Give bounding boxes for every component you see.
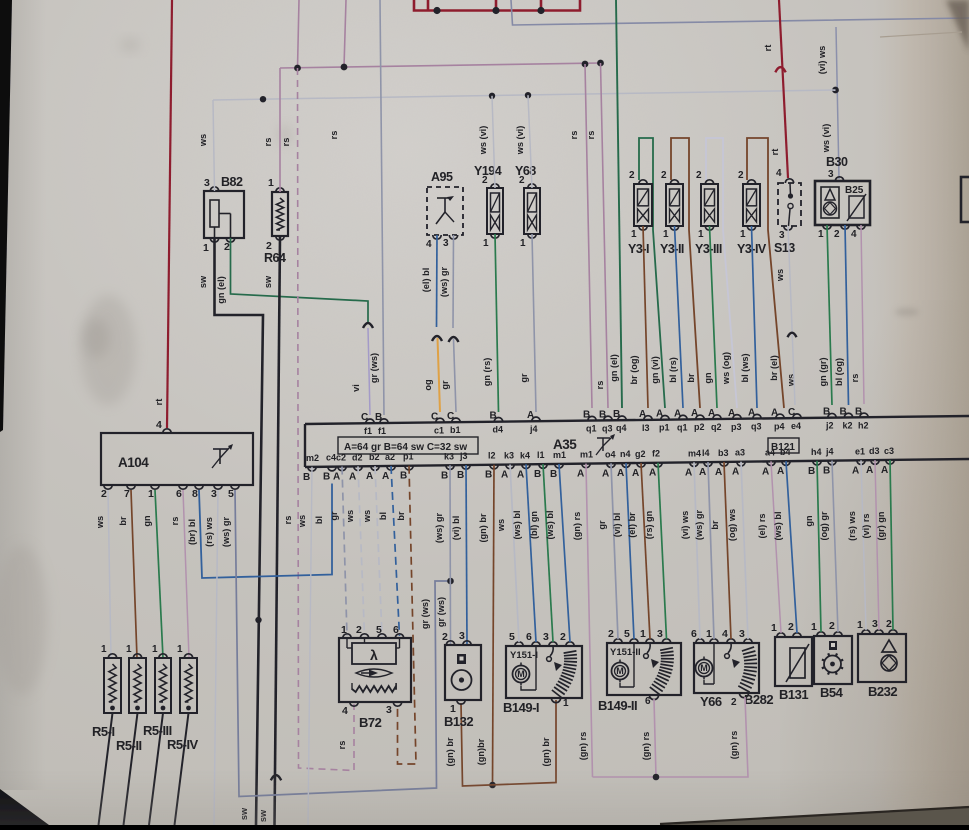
wire rt red vertical to A104 bbox=[167, 0, 172, 428]
svg-text:2: 2 bbox=[886, 618, 892, 630]
svg-text:(rs) ws: (rs) ws bbox=[204, 517, 214, 547]
svg-text:(el) rs: (el) rs bbox=[757, 513, 767, 538]
svg-text:sw: sw bbox=[198, 275, 208, 288]
svg-text:j2: j2 bbox=[825, 421, 834, 431]
svg-text:2: 2 bbox=[560, 631, 566, 643]
component B54 box bbox=[814, 636, 852, 684]
junction dot rs q1 bbox=[582, 61, 589, 68]
svg-text:3: 3 bbox=[828, 169, 834, 180]
component B232 box bbox=[858, 634, 906, 682]
svg-text:B25: B25 bbox=[845, 185, 864, 196]
svg-text:(ws) bl: (ws) bl bbox=[773, 511, 783, 540]
svg-text:2: 2 bbox=[356, 624, 362, 636]
svg-text:m1: m1 bbox=[553, 450, 566, 460]
svg-text:d3: d3 bbox=[869, 446, 880, 456]
svg-text:2: 2 bbox=[731, 697, 737, 708]
B54 pin bumps bbox=[817, 632, 825, 636]
svg-text:j4: j4 bbox=[825, 447, 834, 457]
component R5-III resistor bbox=[155, 658, 171, 713]
wire gn A104 pin1 to R5-III bbox=[155, 490, 163, 658]
Y66 bottom pin bump bbox=[739, 693, 748, 698]
A35 top terminal q2 bbox=[713, 415, 721, 419]
Y3-IV pin2 bump bbox=[747, 180, 755, 184]
svg-text:(ws) gr: (ws) gr bbox=[221, 517, 231, 548]
wire gr Y68 to bus j4 bbox=[532, 234, 536, 412]
B25 slashed rect bbox=[849, 196, 864, 218]
Y66 motor bbox=[696, 660, 713, 677]
A35 bottom terminal k3 bbox=[506, 465, 514, 469]
svg-text:R5-IV: R5-IV bbox=[167, 737, 199, 752]
wire gr bus to B72 bbox=[342, 467, 347, 636]
wire staple pin2 Y3-III bbox=[706, 138, 737, 408]
svg-text:e4: e4 bbox=[791, 421, 801, 431]
wire ws B82 pin3 up bbox=[213, 100, 215, 191]
svg-text:R5-II: R5-II bbox=[116, 738, 142, 753]
svg-text:br: br bbox=[396, 511, 406, 521]
component B131 box bbox=[775, 637, 812, 686]
svg-text:c3: c3 bbox=[884, 446, 894, 456]
svg-text:q2: q2 bbox=[711, 422, 722, 432]
svg-text:λ: λ bbox=[370, 647, 378, 663]
wire rs from top edge b bbox=[344, 0, 346, 67]
svg-text:1: 1 bbox=[857, 619, 863, 631]
wire (ws)gr A95 pin3 bbox=[452, 235, 455, 328]
svg-text:q3: q3 bbox=[602, 423, 613, 433]
svg-text:gr: gr bbox=[597, 520, 607, 530]
A35 bottom terminal d3 bbox=[871, 460, 879, 464]
svg-text:1: 1 bbox=[152, 644, 158, 655]
A35 bottom terminal a4 bbox=[767, 461, 775, 465]
svg-text:B149-II: B149-II bbox=[598, 698, 637, 713]
A35 internal symbol bbox=[597, 437, 610, 439]
wire staple pin2 Y3-I bbox=[639, 138, 665, 408]
A35 bottom terminal m1 bbox=[582, 464, 590, 468]
wire gn bus h4 to B54 bbox=[817, 461, 821, 632]
svg-text:(gn) br: (gn) br bbox=[478, 513, 488, 543]
wire (ws) bl bus to B149-I bbox=[559, 464, 570, 642]
svg-text:gn: gn bbox=[142, 515, 152, 527]
svg-text:B: B bbox=[375, 412, 382, 423]
svg-text:B: B bbox=[490, 411, 497, 422]
B54 gear bbox=[824, 656, 841, 673]
svg-text:f2: f2 bbox=[652, 449, 660, 459]
svg-text:f1: f1 bbox=[364, 426, 372, 436]
wire (gn)rs horizontal bbox=[593, 697, 749, 777]
svg-text:1: 1 bbox=[631, 229, 637, 240]
S13 switch internals bbox=[789, 183, 792, 195]
svg-text:rt: rt bbox=[154, 399, 164, 406]
svg-text:p1: p1 bbox=[659, 423, 670, 433]
component R5-IV resistor bbox=[180, 658, 197, 713]
A104 internal symbol bbox=[213, 448, 228, 450]
svg-text:Y66: Y66 bbox=[700, 694, 722, 709]
svg-text:(el) bl: (el) bl bbox=[421, 268, 431, 293]
svg-text:Y151-I: Y151-I bbox=[510, 650, 538, 661]
svg-text:c1: c1 bbox=[434, 425, 444, 435]
A35 bottom terminal a3 bbox=[737, 462, 745, 466]
svg-text:br: br bbox=[118, 516, 128, 526]
svg-text:og: og bbox=[423, 379, 433, 390]
wire gn(el) teal B82 pin2 to bus f1 bbox=[231, 238, 369, 322]
svg-text:A: A bbox=[674, 408, 681, 419]
svg-text:3: 3 bbox=[657, 628, 663, 640]
wire pin1 Y3-II to bus bbox=[675, 226, 684, 408]
A35 top terminal b1 bbox=[452, 418, 460, 422]
svg-text:1: 1 bbox=[148, 488, 154, 500]
svg-text:p4: p4 bbox=[774, 421, 785, 431]
svg-text:M: M bbox=[517, 669, 525, 679]
A35 top terminal f1 bbox=[366, 419, 374, 423]
svg-text:C: C bbox=[361, 412, 368, 423]
svg-text:6: 6 bbox=[393, 624, 399, 636]
A35 bottom terminal c2 bbox=[338, 467, 346, 471]
wire pin1 Y3-I to bus bbox=[643, 226, 648, 408]
svg-text:3: 3 bbox=[386, 704, 392, 716]
chevron teal to vi bbox=[363, 323, 373, 328]
wire (gn)br bus l2 down bbox=[493, 465, 495, 785]
B132 pin2 bump bbox=[446, 641, 454, 645]
svg-text:1: 1 bbox=[203, 242, 209, 254]
component A35 connector bus bbox=[305, 416, 969, 424]
svg-text:h4: h4 bbox=[811, 447, 822, 457]
S13 pin4 bump bbox=[785, 179, 793, 183]
wire rs A104 pin6 to R5-IV bbox=[183, 490, 189, 658]
wire gr bus to B149-II bbox=[611, 463, 618, 639]
wire (gr)gn bus c3 to B232 bbox=[890, 460, 893, 630]
B82 pin 2 bump bbox=[226, 238, 234, 242]
A104 pin 5 bump bbox=[231, 485, 239, 489]
svg-text:gn (el): gn (el) bbox=[609, 354, 619, 382]
svg-text:A: A bbox=[699, 467, 706, 478]
svg-text:A: A bbox=[333, 472, 340, 483]
svg-text:3: 3 bbox=[543, 631, 549, 643]
B149-II pin bumps bbox=[614, 639, 622, 643]
A104 pin4 bump top bbox=[163, 429, 171, 433]
svg-text:c4: c4 bbox=[326, 453, 336, 463]
component Y3-II valve bbox=[666, 184, 683, 226]
A95 pin3 bump bbox=[449, 235, 457, 239]
svg-text:rs: rs bbox=[586, 131, 596, 140]
svg-text:b3: b3 bbox=[718, 448, 729, 458]
component B149-I box bbox=[506, 646, 582, 698]
svg-text:(ws) bl: (ws) bl bbox=[545, 510, 555, 539]
svg-text:R5-III: R5-III bbox=[143, 723, 172, 738]
svg-text:B: B bbox=[550, 469, 557, 480]
wire lavender rs horizontal bbox=[280, 63, 601, 68]
svg-text:C: C bbox=[431, 411, 438, 422]
svg-text:3: 3 bbox=[872, 618, 878, 630]
svg-text:Y151-II: Y151-II bbox=[610, 647, 641, 658]
svg-text:B54: B54 bbox=[820, 685, 844, 700]
A35 top terminal q4 bbox=[618, 416, 626, 420]
svg-text:(rs) ws: (rs) ws bbox=[847, 511, 857, 541]
wire rs to bus q3 bbox=[601, 63, 609, 408]
component Y3-I valve bbox=[634, 184, 652, 226]
svg-text:gn: gn bbox=[703, 372, 713, 384]
svg-text:B132: B132 bbox=[444, 714, 473, 729]
svg-text:br (el): br (el) bbox=[769, 355, 779, 381]
B149-I switch bbox=[550, 646, 553, 656]
chevron ws S13 bbox=[788, 333, 797, 338]
svg-text:1: 1 bbox=[268, 177, 274, 189]
Y68 pin1 bump bbox=[528, 234, 536, 238]
wire (gn)rs bus m1 down bbox=[586, 464, 593, 777]
B30 inner sensor rect bbox=[821, 187, 839, 218]
svg-text:gr (ws): gr (ws) bbox=[369, 353, 379, 383]
svg-text:m2: m2 bbox=[306, 453, 319, 463]
svg-text:1: 1 bbox=[126, 644, 132, 655]
component A104 box bbox=[101, 433, 253, 485]
bottom shade band bbox=[0, 0, 1, 1]
svg-text:(vi) ws: (vi) ws bbox=[680, 511, 690, 540]
svg-text:1: 1 bbox=[101, 644, 107, 655]
svg-text:2: 2 bbox=[834, 229, 840, 240]
wire ws S13 pin3 to bus e4 bbox=[788, 226, 795, 405]
A35 bottom terminal g2 bbox=[637, 463, 645, 467]
svg-text:2: 2 bbox=[788, 621, 794, 633]
svg-text:d2: d2 bbox=[352, 452, 363, 462]
svg-text:B131: B131 bbox=[779, 687, 808, 702]
svg-text:rs: rs bbox=[263, 138, 273, 147]
svg-text:S13: S13 bbox=[774, 241, 795, 255]
A35 top terminal j4 bbox=[532, 417, 540, 421]
junction dot gn br bbox=[489, 782, 496, 789]
svg-text:(ws) gr: (ws) gr bbox=[434, 513, 444, 544]
svg-text:2: 2 bbox=[224, 241, 230, 253]
wire (el) br bus to B149-II bbox=[641, 463, 650, 639]
svg-text:k2: k2 bbox=[843, 420, 853, 430]
svg-text:B: B bbox=[534, 469, 541, 480]
svg-text:8: 8 bbox=[192, 488, 198, 500]
svg-text:p3: p3 bbox=[731, 422, 742, 432]
A35 bottom terminal n4 bbox=[622, 463, 630, 467]
svg-text:B: B bbox=[823, 466, 830, 477]
wire vi to bus f1-C bbox=[368, 328, 370, 415]
svg-text:4: 4 bbox=[776, 168, 782, 179]
B149-I motor bbox=[513, 666, 530, 683]
svg-text:5: 5 bbox=[376, 624, 382, 636]
B82 resistor bbox=[210, 200, 219, 227]
svg-text:M: M bbox=[700, 663, 708, 673]
wire (rs) gn bus to B149-II bbox=[658, 463, 667, 639]
svg-text:gn (vi): gn (vi) bbox=[650, 356, 660, 384]
B132 inner square bbox=[457, 654, 466, 664]
svg-text:B: B bbox=[400, 471, 407, 482]
S13 pin3 bump bbox=[784, 226, 792, 230]
chevron sw R64 bbox=[271, 775, 281, 780]
wire ws(vi) Y68 up bbox=[528, 95, 532, 188]
component Y194 valve bbox=[487, 188, 503, 234]
svg-text:gn (gr): gn (gr) bbox=[818, 357, 828, 386]
A35 bottom terminal m4 bbox=[690, 462, 698, 466]
svg-text:A: A bbox=[881, 465, 888, 476]
label B121 box bbox=[768, 438, 799, 453]
photo edge bottom paper line bbox=[660, 806, 969, 825]
svg-text:q3: q3 bbox=[751, 422, 762, 432]
B72 pin bumps top bbox=[343, 634, 351, 638]
A35 top terminal l3 bbox=[644, 416, 652, 420]
svg-text:l2: l2 bbox=[488, 451, 496, 461]
A35 bottom terminal j4 bbox=[828, 461, 836, 465]
svg-text:br: br bbox=[686, 373, 696, 383]
svg-text:1: 1 bbox=[811, 621, 817, 633]
wire (el)bl A95 pin4 bbox=[436, 235, 439, 327]
svg-text:br: br bbox=[710, 520, 720, 530]
svg-text:B30: B30 bbox=[826, 155, 848, 169]
wire R5-IV down lead bbox=[175, 713, 189, 825]
Y66 switch bbox=[728, 643, 731, 653]
A104 pin 3 bump bbox=[214, 485, 222, 489]
component R64 box bbox=[272, 192, 288, 236]
svg-text:ws (vi): ws (vi) bbox=[478, 126, 488, 156]
wire rs from top edge a bbox=[298, 0, 300, 68]
svg-text:2: 2 bbox=[482, 175, 488, 186]
wire ws A104 pin2 to R5-I bbox=[108, 490, 111, 658]
component R5-I resistor bbox=[104, 658, 121, 713]
junction dot rs q3 corner bbox=[597, 60, 604, 67]
svg-text:o4: o4 bbox=[605, 449, 616, 459]
B131 pin bumps bbox=[777, 633, 785, 637]
A104 pin 7 bump bbox=[127, 485, 135, 489]
svg-text:gr: gr bbox=[519, 373, 529, 383]
svg-text:m4: m4 bbox=[688, 448, 701, 458]
svg-text:bl: bl bbox=[314, 516, 324, 524]
Y3-IV pin1 bump bbox=[747, 226, 755, 230]
wire sw R64 down bbox=[275, 236, 281, 825]
svg-text:2: 2 bbox=[101, 488, 107, 500]
svg-text:(ws) bl: (ws) bl bbox=[512, 510, 522, 539]
wire (ws)bl bus b4 to B131 bbox=[786, 461, 797, 633]
chevron gr bbox=[449, 337, 459, 342]
svg-text:gn: gn bbox=[804, 515, 814, 527]
svg-text:M: M bbox=[616, 666, 624, 676]
junction dot red bus c bbox=[537, 7, 544, 14]
red supply bus top bbox=[414, 0, 580, 11]
svg-text:A: A bbox=[632, 468, 639, 479]
svg-text:rs: rs bbox=[283, 516, 293, 525]
wire og to bus c1 bbox=[438, 338, 441, 412]
junction dot ws line x263 bbox=[260, 96, 266, 102]
B72 pin4 bump bbox=[350, 702, 358, 706]
svg-text:gr: gr bbox=[440, 380, 450, 390]
svg-text:B: B bbox=[303, 472, 310, 483]
svg-text:rs: rs bbox=[850, 374, 860, 383]
svg-text:Y3-I: Y3-I bbox=[628, 242, 649, 256]
B149-II switch bbox=[647, 643, 650, 653]
svg-text:6: 6 bbox=[526, 631, 532, 643]
component B149-II box bbox=[607, 643, 681, 695]
svg-text:1: 1 bbox=[706, 628, 712, 640]
svg-text:(og) gr: (og) gr bbox=[819, 511, 829, 541]
svg-text:(gn) br: (gn) br bbox=[445, 737, 455, 767]
wire (og)gr bus j4 to B54 bbox=[832, 461, 838, 632]
A35 bottom terminal b4 bbox=[782, 461, 790, 465]
wire rs to bus q1 bbox=[585, 64, 592, 408]
svg-text:A: A bbox=[708, 408, 715, 419]
wire ws bus to B72 bbox=[358, 466, 365, 636]
A35 bottom terminal f2 bbox=[654, 463, 662, 467]
svg-text:(vi) rs: (vi) rs bbox=[861, 513, 871, 538]
svg-text:B: B bbox=[583, 410, 590, 421]
junction dot gn rs bbox=[653, 774, 660, 781]
A35 bottom terminal b3 bbox=[720, 462, 728, 466]
A35 bottom terminal j3 bbox=[462, 465, 470, 469]
svg-text:4: 4 bbox=[156, 419, 162, 431]
B30 pin1 bump bbox=[823, 225, 831, 229]
svg-text:k3: k3 bbox=[444, 451, 454, 461]
svg-text:2: 2 bbox=[738, 170, 744, 181]
B30 pin4 bump bbox=[857, 225, 865, 229]
A35 top terminal p4 bbox=[776, 414, 784, 418]
wire slate gr(ws) from top to B30 pin 3 bbox=[511, 0, 969, 25]
svg-text:1: 1 bbox=[483, 238, 489, 249]
A35 top terminal q3 bbox=[604, 416, 612, 420]
wire (gn)rs B149-II bottom bbox=[654, 699, 656, 777]
B149-I coil bbox=[564, 651, 577, 653]
svg-text:C: C bbox=[788, 407, 795, 418]
B132 pin3 bump bbox=[463, 641, 471, 645]
junction dot ws line at slate vertical bbox=[832, 87, 839, 94]
svg-text:2: 2 bbox=[519, 175, 525, 186]
svg-text:ws: ws bbox=[297, 515, 307, 528]
svg-text:2: 2 bbox=[696, 170, 702, 181]
svg-text:R64: R64 bbox=[264, 251, 286, 265]
wire (el)rs bus a4 to B131 bbox=[771, 461, 781, 633]
svg-text:bl (ws): bl (ws) bbox=[740, 353, 750, 382]
svg-text:4: 4 bbox=[722, 628, 728, 640]
svg-text:gn (rs): gn (rs) bbox=[482, 358, 492, 387]
svg-text:(og) ws: (og) ws bbox=[727, 509, 737, 541]
svg-text:A: A bbox=[349, 471, 356, 482]
photo edge bottom-left black corner bbox=[0, 789, 49, 825]
svg-text:n4: n4 bbox=[620, 449, 631, 459]
A95 internal symbol bbox=[437, 197, 452, 199]
svg-text:q1: q1 bbox=[677, 422, 688, 432]
right page-margin tan strip bbox=[872, 0, 969, 825]
B232 diamond circle bbox=[881, 655, 897, 671]
svg-text:Y3-II: Y3-II bbox=[660, 242, 684, 256]
svg-text:rs: rs bbox=[569, 131, 579, 140]
B72 lens symbol bbox=[356, 669, 392, 677]
wire R5-I down lead bbox=[99, 713, 113, 825]
A35 bottom terminal p1 bbox=[405, 466, 413, 470]
svg-text:3: 3 bbox=[211, 488, 217, 500]
svg-text:l4: l4 bbox=[702, 448, 710, 458]
B54 inner square bbox=[829, 641, 837, 650]
wire gn(gr) B30 pin1 to bus j2 bbox=[827, 225, 832, 405]
svg-text:gr: gr bbox=[329, 511, 339, 521]
wire (vi) ws bus to Y66 bbox=[694, 462, 700, 639]
A35 bottom terminal o4 bbox=[607, 463, 615, 467]
photo edge left black band bbox=[0, 0, 12, 432]
svg-text:rs: rs bbox=[595, 381, 605, 390]
svg-text:ws: ws bbox=[95, 516, 105, 529]
chevron og bbox=[432, 336, 442, 341]
wire gn(rs) Y194 to bus d4 bbox=[495, 234, 499, 412]
svg-text:l3: l3 bbox=[642, 423, 650, 433]
B132 inner circle bbox=[452, 670, 472, 690]
wire br A104 pin7 to R5-II bbox=[131, 490, 137, 658]
svg-text:ws (vi): ws (vi) bbox=[821, 124, 831, 154]
Y194 pin2 bump bbox=[491, 184, 499, 188]
wire rs dashed B72 pin4 net bbox=[298, 68, 355, 771]
svg-text:ws: ws bbox=[496, 519, 506, 532]
A35 top terminal p2 bbox=[696, 415, 704, 419]
junction dot ws line Y68 bbox=[525, 92, 531, 98]
wire gr(ws) vertical top edge to bus f1-B bbox=[380, 0, 384, 415]
svg-text:(br) bl: (br) bl bbox=[187, 519, 197, 545]
wire red stub 2 bbox=[495, 0, 498, 11]
